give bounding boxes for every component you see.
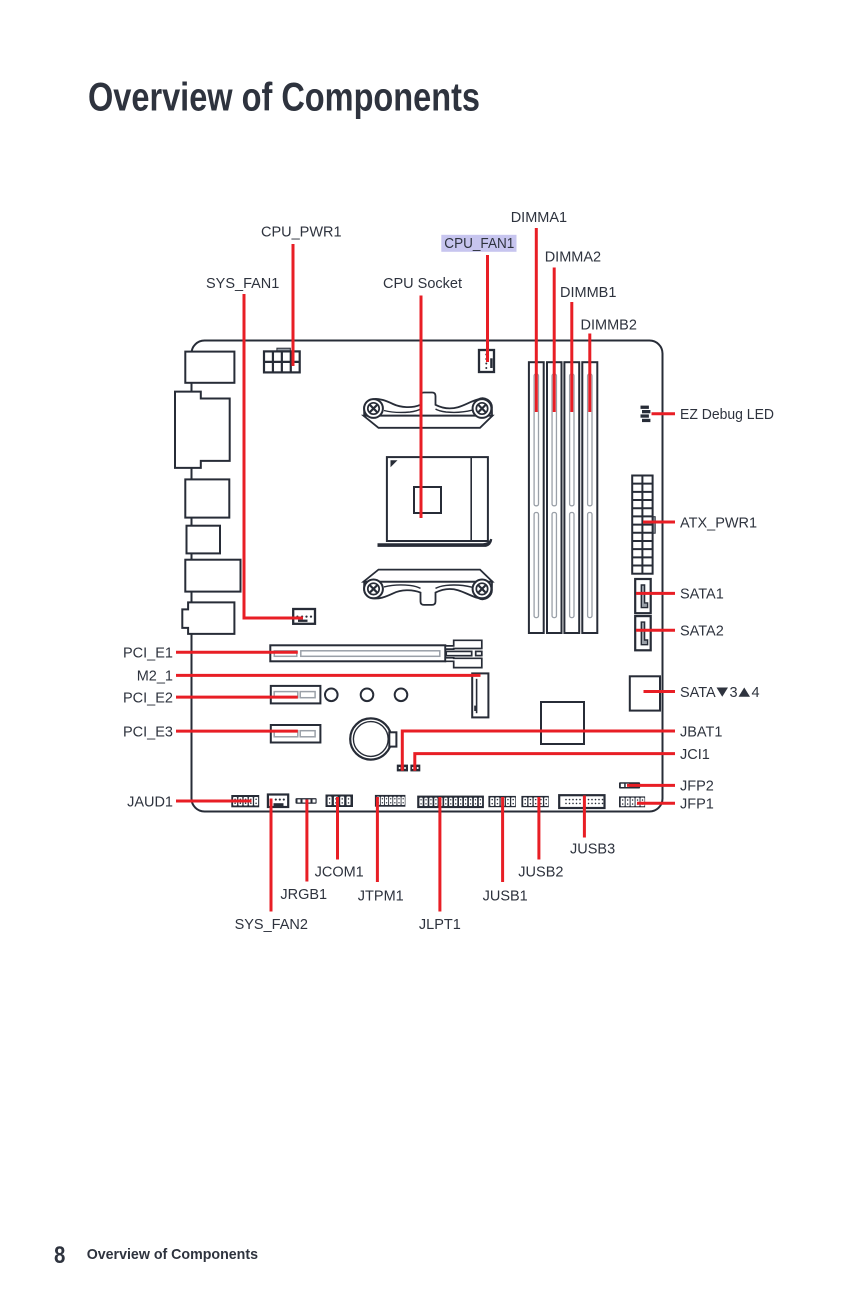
label DIMMB2 (581, 318, 637, 334)
svg-text:DIMMB1: DIMMB1 (560, 285, 616, 301)
wire JCI1 leader (415, 754, 675, 771)
wire EZ Debug LED leader (652, 412, 676, 415)
svg-text:8: 8 (54, 1242, 65, 1269)
svg-text:JBAT1: JBAT1 (680, 724, 722, 740)
wire CPU_FAN1 leader (486, 255, 489, 362)
jumper JCI1 (410, 765, 420, 772)
I/O port 1 (PS/2) (185, 352, 234, 383)
label JRGB1 (280, 887, 327, 903)
svg-text:CPU_PWR1: CPU_PWR1 (261, 225, 342, 241)
svg-text:4: 4 (752, 685, 760, 701)
connector JUSB3 (559, 795, 604, 808)
svg-text:DIMMB2: DIMMB2 (581, 318, 637, 334)
connector CPU_FAN1 (479, 350, 494, 372)
svg-text:JUSB2: JUSB2 (518, 865, 563, 881)
footer page number (54, 1242, 65, 1269)
wire JBAT1 leader (402, 731, 675, 771)
mounting holes row (325, 689, 407, 702)
connector JFP1 (619, 796, 645, 807)
svg-text:CPU Socket: CPU Socket (383, 276, 462, 292)
label JUSB2 (518, 865, 563, 881)
svg-text:SATA1: SATA1 (680, 587, 724, 603)
wire DIMMA1 leader (535, 228, 538, 412)
footer section title (87, 1246, 258, 1263)
connector SATA3/4 (630, 676, 660, 710)
wire JFP2 leader (627, 784, 675, 787)
I/O port 4 (LAN) (187, 526, 221, 554)
wire SYS_FAN1 leader (244, 294, 303, 618)
connector SYS_FAN2 (268, 795, 288, 808)
label DIMMB1 (560, 285, 616, 301)
label PCI_E3 (123, 724, 173, 740)
I/O port 6 (audio jacks) (182, 602, 234, 634)
connector JUSB2 (521, 796, 548, 807)
label CPU_FAN1 (444, 236, 514, 252)
connector JLPT1 (417, 796, 484, 809)
label JAUD1 (127, 794, 173, 810)
connector JCOM1 (326, 795, 354, 808)
svg-text:SYS_FAN2: SYS_FAN2 (235, 917, 308, 933)
label SATA1 (680, 587, 724, 603)
connector SATA1 (635, 579, 651, 613)
memory slot DIMMB2 (582, 362, 597, 633)
connector SATA2 (635, 616, 651, 650)
motherboard outline (192, 341, 663, 812)
svg-text:JTPM1: JTPM1 (358, 889, 404, 905)
svg-text:JFP1: JFP1 (680, 797, 714, 813)
svg-text:Overview of Components: Overview of Components (88, 76, 480, 120)
svg-text:JUSB1: JUSB1 (483, 889, 528, 905)
label CPU_PWR1 (261, 225, 342, 241)
svg-text:PCI_E1: PCI_E1 (123, 646, 173, 662)
svg-text:DIMMA2: DIMMA2 (545, 250, 601, 266)
wire M2_1 leader (176, 674, 481, 677)
svg-text:SATA: SATA (680, 685, 716, 701)
wire JFP1 leader (637, 802, 675, 805)
wire SATA3/4 leader (644, 690, 676, 693)
M.2 slot M2_1 (472, 673, 488, 717)
svg-text:Overview of Components: Overview of Components (87, 1246, 258, 1263)
label SYS_FAN2 (235, 917, 308, 933)
label DIMMA1 (511, 210, 567, 226)
label EZ Debug LED (680, 407, 774, 423)
connector JFP2 (619, 782, 640, 788)
svg-text:ATX_PWR1: ATX_PWR1 (680, 515, 757, 531)
svg-text:EZ Debug LED: EZ Debug LED (680, 407, 774, 423)
PCIe x16 slot PCI_E1 (270, 645, 445, 661)
svg-text:M2_1: M2_1 (137, 669, 173, 685)
connector JAUD1 (231, 795, 259, 807)
wire DIMMB2 leader (588, 334, 591, 413)
label JTPM1 (358, 889, 404, 905)
svg-text:JAUD1: JAUD1 (127, 794, 173, 810)
svg-text:JUSB3: JUSB3 (570, 842, 615, 858)
CPU_FAN1 highlight box (441, 235, 516, 252)
label JBAT1 (680, 724, 722, 740)
CPU heatsink bracket top (364, 393, 493, 428)
wire JAUD1 leader (176, 800, 252, 803)
label CPU Socket (383, 276, 462, 292)
label PCI_E2 (123, 690, 173, 706)
wire PCI_E2 leader (176, 696, 298, 699)
PCIe x1 slot PCI_E3 (271, 725, 321, 743)
wire SYS_FAN2 leader (270, 799, 273, 912)
CMOS battery (350, 718, 396, 759)
label SATA2 (680, 624, 724, 640)
CPU heatsink bracket bottom (364, 570, 493, 605)
label JUSB1 (483, 889, 528, 905)
wire JLPT1 leader (438, 797, 441, 912)
I/O port 5 (USB stack) (185, 560, 240, 592)
svg-text:JFP2: JFP2 (680, 779, 714, 795)
svg-text:DIMMA1: DIMMA1 (511, 210, 567, 226)
svg-text:PCI_E3: PCI_E3 (123, 724, 173, 740)
label SYS_FAN1 (206, 276, 279, 292)
CPU socket AM4 (378, 457, 493, 547)
label JCI1 (680, 747, 710, 763)
I/O port 2 (VGA D-Sub) (175, 392, 230, 468)
connector JUSB1 (488, 796, 516, 807)
memory slot DIMMA2 (547, 362, 562, 633)
label JUSB3 (570, 842, 615, 858)
wire DIMMB1 leader (570, 302, 573, 412)
connector JTPM1 (375, 795, 406, 807)
label PCI_E1 (123, 646, 173, 662)
wire CPU_PWR1 leader (292, 244, 295, 366)
connector JRGB1 (296, 798, 317, 804)
memory slot DIMMA1 (529, 362, 544, 633)
label JFP2 (680, 779, 714, 795)
PCI_E1 latch (445, 640, 482, 667)
wire ATX_PWR1 leader (643, 521, 675, 524)
wire PCI_E1 leader (176, 651, 298, 654)
wire CPU Socket leader (420, 296, 423, 519)
memory slot DIMMB1 (564, 362, 579, 633)
svg-text:JCI1: JCI1 (680, 747, 710, 763)
svg-text:JLPT1: JLPT1 (419, 917, 461, 933)
svg-text:3: 3 (730, 685, 738, 701)
EZ Debug LED indicator (641, 406, 651, 422)
wire SATA1 leader (636, 592, 675, 595)
wire SATA2 leader (636, 629, 675, 632)
label ATX_PWR1 (680, 515, 757, 531)
svg-text:JRGB1: JRGB1 (280, 887, 327, 903)
PCIe x1 slot PCI_E2 (271, 686, 321, 704)
wire JRGB1 leader (305, 800, 308, 882)
svg-text:SATA2: SATA2 (680, 624, 724, 640)
wire JUSB1 leader (501, 797, 504, 882)
connector SYS_FAN1 (293, 609, 315, 624)
label JCOM1 (315, 865, 364, 881)
connector CPU_PWR1 (264, 348, 300, 372)
label JLPT1 (419, 917, 461, 933)
svg-text:JCOM1: JCOM1 (315, 865, 364, 881)
label DIMMA2 (545, 250, 601, 266)
wire PCI_E3 leader (176, 730, 298, 733)
svg-text:CPU_FAN1: CPU_FAN1 (444, 236, 514, 252)
connector ATX_PWR1 (632, 476, 655, 574)
I/O port 3 (HDMI) (185, 479, 229, 517)
svg-text:SYS_FAN1: SYS_FAN1 (206, 276, 279, 292)
page title (88, 76, 480, 120)
chipset (541, 702, 584, 744)
wire JUSB3 leader (583, 796, 586, 838)
svg-text:PCI_E2: PCI_E2 (123, 690, 173, 706)
wire JUSB2 leader (537, 797, 540, 860)
jumper JBAT1 (397, 765, 408, 772)
wire DIMMA2 leader (553, 268, 556, 413)
label JFP1 (680, 797, 714, 813)
wire JCOM1 leader (336, 797, 339, 860)
wire JTPM1 leader (376, 797, 379, 882)
label M2_1 (137, 669, 173, 685)
label SATA3/4 (680, 685, 760, 701)
